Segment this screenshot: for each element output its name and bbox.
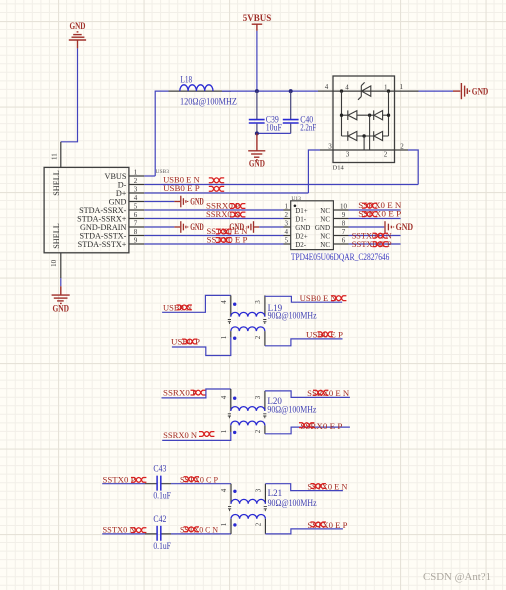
wire L19 pin3 to USB0_E_N — [265, 296, 342, 302]
svg-text:0.1uF: 0.1uF — [153, 491, 171, 501]
svg-text:10: 10 — [340, 203, 348, 211]
svg-text:1: 1 — [220, 335, 228, 339]
svg-text:SHELL: SHELL — [52, 170, 61, 195]
svg-text:L18: L18 — [180, 75, 192, 85]
svg-text:2: 2 — [284, 211, 288, 219]
svg-text:USB0 E N: USB0 E N — [300, 293, 338, 303]
wire row2 to bottom rail — [369, 115, 371, 150]
svg-text:3: 3 — [134, 186, 138, 194]
wire USB0_N to L19 pin4 — [162, 295, 231, 312]
pin 11 lead — [60, 142, 62, 168]
svg-text:SSTX0 C N: SSTX0 C N — [180, 525, 219, 535]
svg-text:7: 7 — [342, 228, 346, 236]
svg-text:D2+: D2+ — [295, 232, 308, 240]
svg-text:GND: GND — [249, 159, 265, 169]
svg-text:2.2nF: 2.2nF — [300, 123, 316, 133]
svg-text:STDA-SSTX+: STDA-SSTX+ — [78, 240, 127, 249]
pin numbers U13 — [284, 203, 347, 245]
svg-text:CSDN @Ant?1: CSDN @Ant?1 — [423, 572, 491, 583]
svg-text:90Ω@100MHz: 90Ω@100MHz — [267, 405, 316, 415]
svg-text:SSTX0 P: SSTX0 P — [103, 474, 136, 484]
svg-text:0.1uF: 0.1uF — [153, 541, 171, 551]
svg-text:GND: GND — [52, 304, 69, 314]
svg-text:GND: GND — [190, 197, 204, 207]
svg-text:8: 8 — [342, 220, 346, 228]
svg-text:4: 4 — [220, 395, 228, 399]
power flag GND (U13 pin8) — [385, 221, 414, 233]
svg-text:10uF: 10uF — [266, 123, 282, 133]
wire SSRX0_E_N (U13 pin10) — [349, 209, 401, 211]
svg-text:2: 2 — [384, 151, 388, 159]
wire L19 pin2 to USB0_E_P — [265, 339, 343, 346]
wire USB0_E_N (D-) — [144, 184, 418, 186]
svg-text:4: 4 — [134, 194, 138, 202]
svg-text:5: 5 — [284, 237, 288, 245]
pin lead D14-1 — [395, 90, 419, 92]
wire L21 pin3 to SSTX0_E_N — [265, 484, 343, 491]
wire GND-flag to pin 11 — [61, 48, 78, 141]
wire U13 pin8 GND — [349, 226, 385, 228]
capacitor C43 0.1uF — [145, 464, 171, 501]
svg-text:SSTX0 C P: SSTX0 C P — [352, 239, 392, 249]
svg-text:6: 6 — [342, 237, 346, 245]
svg-text:1: 1 — [220, 522, 228, 526]
wire USB0_E_P (D+) — [144, 192, 308, 194]
pin lead D14-4 — [318, 90, 333, 92]
wire SSRX0_P row — [144, 209, 283, 211]
wire SSTX0_E_N row — [144, 235, 283, 237]
power flag 5VBUS — [243, 13, 272, 31]
svg-text:TPD4E05U06DQAR_C2827646: TPD4E05U06DQAR_C2827646 — [291, 252, 390, 262]
wire internal bottom rail — [333, 149, 395, 151]
power flag GND (pin4 row) — [174, 196, 204, 208]
diode D14-d (row3 right) — [364, 131, 388, 141]
node junction VBUS/C39 — [255, 89, 259, 93]
wire right bus — [388, 91, 390, 136]
inductor L18 — [169, 75, 238, 107]
pin 10 lead — [60, 253, 62, 278]
svg-text:SSTX0 E P: SSTX0 E P — [207, 235, 248, 245]
svg-text:3: 3 — [284, 220, 288, 228]
svg-text:90Ω@100MHz: 90Ω@100MHz — [268, 498, 317, 508]
svg-text:NC: NC — [320, 215, 330, 223]
wire U13 pin3 GND — [259, 226, 283, 228]
svg-text:2: 2 — [255, 522, 263, 526]
wire row3 to bottom rail — [363, 136, 365, 150]
svg-text:1: 1 — [134, 169, 138, 177]
node internal right top — [387, 89, 390, 92]
wire SSTX0_C_N (U13 pin7) — [349, 235, 401, 237]
svg-text:5: 5 — [134, 203, 138, 211]
svg-text:NC: NC — [320, 241, 330, 249]
wire VBUS rail — [222, 90, 318, 92]
wire cap bottoms — [257, 132, 291, 134]
pin lead D14-2 — [395, 149, 409, 151]
svg-text:USB0 E P: USB0 E P — [306, 329, 343, 339]
svg-text:3: 3 — [254, 300, 262, 304]
svg-text:GND: GND — [472, 86, 489, 96]
pin leads left 1-5 — [284, 210, 291, 244]
svg-text:2: 2 — [254, 429, 262, 433]
wire GND pin4 — [144, 201, 174, 203]
IC U13 TPD4E05U06DQAR — [284, 196, 390, 262]
node junction VBUS/C40 — [289, 89, 293, 93]
svg-text:4: 4 — [220, 488, 228, 492]
svg-text:4: 4 — [220, 300, 228, 304]
TVS zener diode (top) — [358, 82, 371, 99]
wire SSRX0_N to L20 pin1 — [162, 432, 231, 441]
connector USB (left) — [44, 142, 144, 278]
wire VBUS pin1 — [144, 175, 155, 177]
svg-text:USB0 E P: USB0 E P — [163, 183, 200, 193]
wire C42 to L21 pin1 — [171, 533, 231, 535]
svg-text:2: 2 — [400, 142, 404, 150]
svg-text:8: 8 — [134, 228, 138, 236]
svg-text:9: 9 — [134, 237, 138, 245]
svg-text:3: 3 — [328, 142, 332, 150]
pin names — [77, 172, 127, 249]
svg-text:D1+: D1+ — [295, 207, 308, 215]
svg-text:10: 10 — [50, 259, 58, 267]
wire pin10 to GND — [60, 278, 62, 286]
wire SSTX0_E_P row — [144, 243, 283, 245]
svg-text:D14: D14 — [333, 165, 345, 172]
svg-text:SSRX0 E N: SSRX0 E N — [307, 388, 350, 398]
svg-text:5VBUS: 5VBUS — [243, 13, 272, 23]
power flag GND (below C39) — [248, 133, 265, 168]
svg-text:GND: GND — [295, 224, 310, 232]
svg-text:NC: NC — [320, 232, 330, 240]
diode D14-b (row2 right) — [370, 110, 389, 120]
wire L20 pin3 to SSRX0_E_N — [265, 391, 350, 398]
svg-text:1: 1 — [400, 83, 404, 91]
svg-text:GND: GND — [315, 224, 330, 232]
wire D14 pin3 to USB0_E_P — [308, 150, 320, 193]
power flag GND (U13 pin3 side, mirrored) — [229, 221, 259, 233]
svg-text:GND: GND — [396, 222, 414, 232]
diode D14-a (row2 left) — [342, 110, 370, 120]
svg-text:1: 1 — [284, 203, 288, 211]
svg-text:SSRX0 P: SSRX0 P — [163, 388, 197, 398]
wire SSTX0_C_P (U13 pin6) — [349, 243, 401, 245]
wire VBUS vertical from connector pin1 — [155, 91, 168, 176]
wire L21 pin2 to SSTX0_E_P — [265, 529, 343, 534]
svg-text:120Ω@100MHZ: 120Ω@100MHZ — [180, 96, 237, 106]
svg-text:L21: L21 — [268, 488, 283, 498]
pin lead D14-3 — [320, 149, 333, 151]
pin numbers 1-9 — [134, 169, 138, 245]
common-mode choke L21 — [220, 484, 316, 534]
wire SSRX0_P to L20 pin4 — [162, 389, 231, 398]
svg-text:1: 1 — [220, 429, 228, 433]
svg-text:11: 11 — [51, 153, 59, 160]
wire D14 pin2 to USB0_E_N — [408, 150, 418, 185]
svg-text:2: 2 — [134, 177, 138, 185]
capacitor C42 0.1uF — [145, 514, 171, 551]
svg-text:C43: C43 — [153, 464, 166, 474]
diode array D14 — [318, 76, 419, 172]
capacitor C39 10uF — [249, 91, 282, 133]
svg-text:6: 6 — [134, 211, 138, 219]
svg-text:3: 3 — [346, 151, 350, 159]
svg-text:4: 4 — [325, 83, 329, 91]
node row3 — [362, 134, 365, 137]
node internal left top — [340, 89, 343, 92]
pin stubs 1-9 — [129, 176, 144, 244]
svg-text:3: 3 — [254, 395, 262, 399]
svg-text:NC: NC — [320, 207, 330, 215]
svg-text:SSRX0 N: SSRX0 N — [163, 430, 198, 440]
wire C43 to L21 pin4 — [171, 483, 231, 485]
svg-text:2: 2 — [254, 335, 262, 339]
svg-text:4: 4 — [284, 228, 288, 236]
node junction C39-GND — [255, 131, 259, 135]
svg-text:D2-: D2- — [295, 241, 307, 249]
svg-text:90Ω@100MHz: 90Ω@100MHz — [268, 310, 317, 320]
wire SSRX0_E_P (U13 pin9) — [349, 218, 401, 220]
common-mode choke L19 — [220, 295, 317, 345]
wire USB0_P to L19 pin1 — [172, 337, 231, 355]
svg-text:C42: C42 — [153, 514, 166, 524]
svg-text:GND: GND — [70, 21, 86, 31]
wire left bus — [341, 91, 343, 136]
svg-text:4: 4 — [345, 84, 349, 92]
wire 5VBUS down to VBUS rail — [256, 31, 258, 91]
svg-text:1: 1 — [384, 84, 388, 92]
power flag GND (right of D14) — [453, 83, 489, 99]
svg-text:SHELL: SHELL — [52, 223, 61, 248]
svg-text:D1-: D1- — [295, 215, 307, 223]
svg-text:USB0 P: USB0 P — [171, 336, 200, 346]
capacitor C40 2.2nF — [283, 91, 316, 133]
pin names U13 — [295, 207, 310, 249]
power flag GND (pin7 row left) — [174, 221, 204, 233]
svg-text:7: 7 — [134, 220, 138, 228]
wire SSTX0_P to C43 — [102, 483, 145, 485]
svg-text:9: 9 — [342, 211, 346, 219]
power flag GND (below connector) — [52, 286, 70, 313]
diode D14-c (row3 left) — [342, 131, 365, 141]
wire internal top rail — [333, 90, 395, 92]
node row2 — [340, 114, 343, 117]
wire L20 pin2 to SSRX0_E_P — [265, 427, 350, 434]
power flag GND (top left) — [69, 21, 86, 48]
svg-text:USB0 N: USB0 N — [163, 302, 193, 312]
svg-text:SSTX0 C P: SSTX0 C P — [180, 474, 218, 484]
wire SSRX0_N row — [144, 218, 283, 220]
svg-text:3: 3 — [255, 488, 263, 492]
svg-text:GND: GND — [190, 222, 204, 232]
common-mode choke L20 — [220, 389, 316, 434]
wire SSTX0_N to C42 — [102, 533, 145, 535]
wire GND-DRAIN pin7 — [144, 226, 174, 228]
wire D14 pin1 to GND flag — [419, 90, 454, 92]
pin leads right 10-6 — [333, 210, 348, 244]
